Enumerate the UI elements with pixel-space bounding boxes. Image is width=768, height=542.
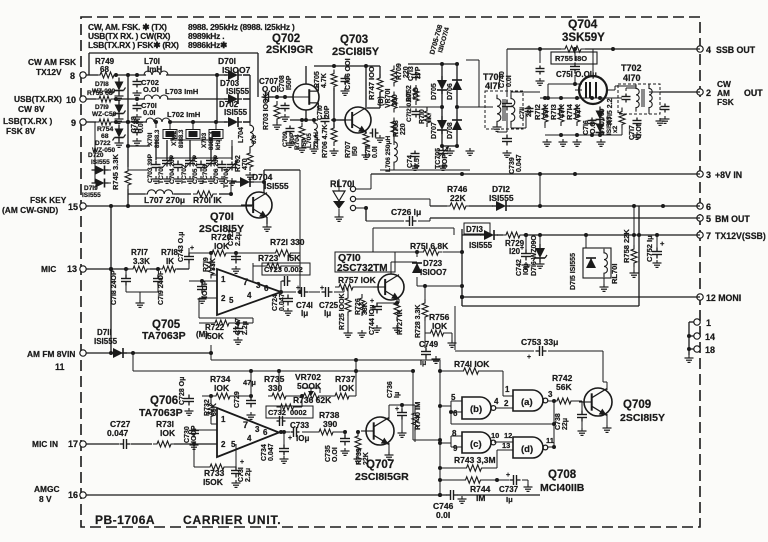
svg-text:+: + bbox=[370, 298, 374, 305]
svg-text:SSB OUT: SSB OUT bbox=[716, 45, 756, 55]
capacitor C718 240P bbox=[111, 269, 131, 305]
svg-text:TC70I: TC70I bbox=[158, 166, 165, 184]
box Q710 label bbox=[335, 252, 395, 272]
svg-text:4I7I: 4I7I bbox=[485, 81, 500, 91]
trimmer TC702 bbox=[181, 156, 196, 184]
svg-text:5: 5 bbox=[706, 214, 711, 224]
svg-text:R7I7: R7I7 bbox=[131, 248, 148, 257]
svg-text:3: 3 bbox=[256, 281, 261, 290]
resistor R717 3.3K bbox=[129, 248, 151, 272]
svg-text:5OOK: 5OOK bbox=[297, 381, 322, 391]
pin 4 SSB OUT bbox=[697, 45, 756, 55]
svg-text:6: 6 bbox=[453, 409, 458, 418]
svg-text:OUT: OUT bbox=[744, 88, 763, 98]
resistor R701 1K bbox=[193, 191, 223, 205]
svg-text:I50P: I50P bbox=[286, 75, 293, 90]
capacitor C706 20P bbox=[213, 154, 227, 184]
capacitor C712 0.001 bbox=[406, 92, 421, 122]
capacitor C702 0.01 bbox=[133, 78, 159, 97]
label D705-708 1S1007x4 bbox=[429, 24, 451, 56]
resistor R728 3.3K bbox=[415, 286, 428, 345]
svg-text:Q703: Q703 bbox=[340, 34, 368, 46]
svg-text:ISI555: ISI555 bbox=[224, 108, 248, 117]
resistor R721 330 bbox=[236, 237, 305, 266]
capacitor C750 1000P bbox=[536, 49, 545, 85]
label Q708 MC14011B bbox=[540, 469, 585, 494]
svg-text:2SCI8I5GR: 2SCI8I5GR bbox=[355, 471, 409, 483]
svg-text:+: + bbox=[240, 459, 244, 466]
svg-text:D705: D705 bbox=[431, 83, 438, 100]
svg-text:LSB(TX.RX ): LSB(TX.RX ) bbox=[3, 116, 53, 126]
svg-text:R726: R726 bbox=[355, 298, 362, 315]
svg-text:C722: C722 bbox=[228, 229, 235, 246]
svg-text:ISI555: ISI555 bbox=[91, 159, 110, 166]
capacitor C749 1u bbox=[419, 340, 441, 367]
svg-text:1: 1 bbox=[221, 415, 226, 424]
svg-text:C7I8 24OP: C7I8 24OP bbox=[111, 270, 118, 305]
capacitor C705 27P bbox=[192, 154, 206, 184]
svg-text:I20: I20 bbox=[509, 247, 521, 256]
svg-text:Iμ: Iμ bbox=[394, 392, 401, 398]
wire Q709 collector to C753 bbox=[603, 382, 607, 390]
capacitor C716 0.01 bbox=[583, 118, 597, 136]
svg-text:Q709: Q709 bbox=[623, 399, 651, 411]
svg-text:6: 6 bbox=[706, 202, 711, 212]
svg-text:C743 O.μ: C743 O.μ bbox=[178, 232, 185, 262]
capacitor C732 0.002 box bbox=[266, 406, 313, 426]
svg-text:R705: R705 bbox=[314, 71, 321, 88]
wire T702 out to pin2 bbox=[649, 92, 700, 125]
svg-text:22μ: 22μ bbox=[562, 418, 569, 430]
wire SSB feedback bbox=[497, 49, 512, 132]
resistor R712 39K bbox=[533, 104, 550, 126]
resistor R718 1K bbox=[159, 248, 180, 272]
capacitor C719 240P bbox=[126, 270, 165, 307]
svg-text:C738: C738 bbox=[555, 413, 562, 430]
svg-text:Iμ: Iμ bbox=[506, 495, 513, 504]
svg-text:2: 2 bbox=[221, 294, 226, 303]
pin 11 AM FM 8V IN bbox=[27, 349, 89, 372]
resistor R705 4.7K bbox=[314, 70, 337, 91]
capacitor C735 0.01 bbox=[325, 430, 350, 462]
resistor R736 62K bbox=[277, 394, 333, 414]
inductor L707 270u bbox=[143, 190, 185, 205]
svg-text:Iμ: Iμ bbox=[420, 360, 426, 367]
pin 14 bbox=[694, 332, 715, 342]
svg-text:C75I O.OIμ: C75I O.OIμ bbox=[556, 70, 597, 79]
svg-text:2SCI8I5Y: 2SCI8I5Y bbox=[620, 412, 665, 424]
resistor R727 1K bbox=[393, 299, 405, 335]
capacitor C739 0.047 bbox=[502, 135, 523, 175]
svg-text:Iμ: Iμ bbox=[301, 309, 308, 318]
zener D722 WZ-050 bbox=[92, 125, 126, 155]
wire Q706 rail bbox=[251, 369, 413, 373]
svg-text:1: 1 bbox=[221, 275, 226, 284]
wire filter mid rail bbox=[128, 158, 232, 170]
capacitor C734 0.047 bbox=[261, 430, 289, 463]
svg-text:R702: R702 bbox=[235, 155, 242, 172]
svg-text:L707 270μ: L707 270μ bbox=[144, 195, 185, 205]
svg-text:8988.3: 8988.3 bbox=[155, 129, 161, 148]
svg-text:BM OUT: BM OUT bbox=[715, 214, 750, 224]
capacitor C736 1u bbox=[387, 381, 407, 437]
svg-text:R722: R722 bbox=[205, 323, 225, 332]
svg-text:4I70: 4I70 bbox=[623, 73, 641, 83]
diode D721 1S1555 bbox=[82, 170, 111, 199]
svg-text:RL70I: RL70I bbox=[610, 264, 619, 284]
pin 8 CW AM FSK TX12V bbox=[28, 57, 89, 81]
svg-text:8: 8 bbox=[452, 429, 457, 438]
pin 18 bbox=[694, 345, 715, 355]
svg-text:x2: x2 bbox=[612, 125, 619, 133]
wire T701 input bbox=[466, 60, 540, 131]
svg-text:6: 6 bbox=[263, 428, 268, 437]
svg-text:68: 68 bbox=[101, 133, 109, 140]
svg-text:C742: C742 bbox=[516, 259, 523, 276]
dual-gate FET Q704 3SK59Y bbox=[548, 17, 607, 104]
svg-text:C726 Iμ: C726 Iμ bbox=[391, 207, 421, 217]
svg-text:+8V IN: +8V IN bbox=[715, 170, 742, 180]
svg-text:ISIOO7: ISIOO7 bbox=[222, 65, 251, 75]
svg-text:17: 17 bbox=[68, 439, 78, 449]
svg-text:Q708: Q708 bbox=[548, 469, 577, 481]
svg-text:IOK: IOK bbox=[160, 428, 176, 438]
svg-text:7: 7 bbox=[706, 231, 711, 241]
nand gate (b) bbox=[438, 393, 513, 419]
svg-text:R728 3.3K: R728 3.3K bbox=[415, 305, 422, 338]
svg-text:(d): (d) bbox=[521, 444, 533, 455]
wire pin6 row bbox=[430, 204, 700, 208]
resistor R734 10K bbox=[202, 371, 251, 399]
svg-text:LSB(TX.RX ) FSK✱ (RX): LSB(TX.RX ) FSK✱ (RX) bbox=[88, 40, 179, 50]
svg-text:330: 330 bbox=[268, 383, 282, 393]
wire Q710 collector diode D723 bbox=[391, 250, 464, 288]
wire Q705 feedback bbox=[253, 266, 302, 294]
svg-text:USB(TX.RX): USB(TX.RX) bbox=[14, 94, 62, 104]
svg-text:Q.OI: Q.OI bbox=[262, 85, 279, 94]
diode D711 1S1555 bbox=[94, 328, 127, 358]
nand gate (a) bbox=[503, 371, 557, 411]
svg-text:C724: C724 bbox=[272, 294, 279, 311]
svg-text:D7I3: D7I3 bbox=[466, 225, 483, 234]
svg-text:R743 3,3M: R743 3,3M bbox=[454, 455, 496, 465]
wire Q706 inputs bbox=[194, 424, 217, 444]
wire Q706 output node bbox=[279, 430, 290, 434]
svg-text:TX12V(SSB): TX12V(SSB) bbox=[715, 231, 766, 241]
svg-text:47μ: 47μ bbox=[243, 378, 256, 387]
resistor R749 68 bbox=[95, 57, 118, 78]
svg-text:5: 5 bbox=[231, 440, 236, 449]
svg-text:C739: C739 bbox=[509, 157, 516, 174]
svg-text:33K: 33K bbox=[362, 302, 369, 315]
diode D707 bbox=[431, 116, 447, 139]
svg-text:L702 ImH: L702 ImH bbox=[167, 110, 200, 119]
svg-text:CW AM FSK: CW AM FSK bbox=[28, 57, 76, 67]
pin 10 USB(TX,RX) CW 8V bbox=[14, 94, 89, 114]
svg-text:C740: C740 bbox=[499, 71, 506, 88]
svg-text:D7II: D7II bbox=[97, 328, 112, 337]
svg-text:R7I5 2.2: R7I5 2.2 bbox=[607, 98, 614, 125]
capacitor C730 100P bbox=[184, 425, 199, 449]
board outline PB-1706A (dashed) bbox=[81, 17, 700, 527]
svg-text:I5OK: I5OK bbox=[205, 332, 224, 341]
pin 6 bbox=[697, 202, 711, 212]
svg-text:D707: D707 bbox=[431, 122, 438, 139]
potentiometer VR702 500K bbox=[295, 372, 323, 399]
wire crystal filter bus bbox=[126, 75, 232, 206]
wire MONI row bbox=[460, 295, 700, 299]
capacitor C703 39P bbox=[147, 153, 161, 183]
resistor R732 39K bbox=[204, 394, 218, 424]
svg-text:9: 9 bbox=[453, 444, 458, 453]
svg-text:ISI555: ISI555 bbox=[82, 192, 101, 199]
wire Q705 out bottom bbox=[199, 318, 253, 323]
svg-text:L706 250μH: L706 250μH bbox=[385, 136, 392, 172]
wire MIC row bbox=[89, 267, 189, 271]
capacitor C738 22u bbox=[555, 401, 587, 435]
svg-text:C734: C734 bbox=[261, 444, 268, 461]
transistor Q709 2SC1815Y bbox=[579, 388, 665, 424]
svg-text:13: 13 bbox=[502, 441, 510, 450]
pin 7 TX12V(SSB) bbox=[697, 231, 766, 241]
resistor R702 470 bbox=[235, 149, 255, 179]
board name PB-1706A CARRIER UNIT bbox=[95, 513, 281, 527]
svg-text:2: 2 bbox=[221, 440, 226, 449]
resistor R703 100K bbox=[263, 93, 282, 130]
svg-text:13: 13 bbox=[67, 264, 77, 274]
svg-text:(c): (c) bbox=[470, 439, 482, 450]
resistor R714 62K bbox=[565, 103, 582, 126]
svg-text:2SC732TM: 2SC732TM bbox=[337, 263, 388, 274]
wire row 8V CW rail (pin8) bbox=[89, 73, 250, 77]
svg-text:C748: C748 bbox=[131, 116, 138, 133]
wire FSK vertical bbox=[109, 206, 113, 353]
wire AM FM row bbox=[89, 351, 213, 355]
svg-text:Iμ: Iμ bbox=[324, 309, 331, 318]
svg-text:AM FM 8VIN: AM FM 8VIN bbox=[27, 349, 75, 359]
svg-text:X702: X702 bbox=[171, 130, 178, 146]
svg-text:C723 0.002: C723 0.002 bbox=[264, 265, 303, 274]
wire Q705 inputs bbox=[189, 275, 217, 318]
svg-text:R723: R723 bbox=[258, 253, 279, 263]
svg-text:12: 12 bbox=[504, 431, 512, 440]
resistor R738 390 bbox=[302, 410, 345, 435]
svg-text:16: 16 bbox=[68, 490, 78, 500]
wire ssb out row bbox=[507, 47, 700, 51]
resistor R726 33K bbox=[355, 294, 369, 337]
svg-text:4: 4 bbox=[247, 434, 252, 443]
diode D708 bbox=[447, 120, 462, 139]
capacitor C721 100P bbox=[197, 280, 209, 303]
svg-text:0.0I: 0.0I bbox=[138, 121, 145, 133]
op-amp Q705 TA7063P bbox=[142, 269, 281, 342]
capacitor C704 20P bbox=[169, 154, 183, 184]
wire diode ring bbox=[399, 62, 493, 155]
svg-text:6: 6 bbox=[264, 284, 269, 293]
diodes D710 1S555 x2 bbox=[596, 107, 620, 137]
capacitor C751 0.01u bbox=[556, 49, 597, 84]
diode D723 1S1007 bbox=[412, 259, 447, 277]
resistor R753 68 bbox=[87, 90, 115, 102]
capacitor C710 20P bbox=[317, 105, 331, 124]
svg-text:D723: D723 bbox=[423, 259, 443, 268]
svg-text:IOK: IOK bbox=[339, 383, 355, 393]
wire AMGC row bbox=[89, 493, 540, 497]
svg-text:ISI555: ISI555 bbox=[489, 193, 514, 203]
resistor R735 330 bbox=[264, 371, 302, 399]
relay RL701 coil with D715 bbox=[570, 235, 619, 291]
svg-text:0.047: 0.047 bbox=[107, 428, 129, 438]
inductor L706 250uH bbox=[385, 136, 397, 172]
resistor R708 220 bbox=[391, 118, 407, 139]
wire Q704 bias rail bbox=[540, 84, 622, 146]
svg-text:R7I9: R7I9 bbox=[203, 257, 210, 272]
svg-text:4: 4 bbox=[494, 397, 499, 406]
crystal X701 8988.3 bbox=[147, 129, 177, 148]
capacitor C742 10u bbox=[516, 233, 531, 276]
svg-text:MIC IN: MIC IN bbox=[32, 439, 58, 449]
transistor Q702 2SK19GR bbox=[266, 33, 319, 110]
capacitor C726 1u bbox=[366, 207, 430, 226]
wire +8V row pin3 bbox=[371, 172, 700, 206]
svg-text:10: 10 bbox=[66, 95, 76, 105]
svg-text:C735: C735 bbox=[325, 445, 332, 462]
svg-text:R747 IOO: R747 IOO bbox=[367, 66, 376, 100]
svg-text:7: 7 bbox=[243, 420, 248, 430]
svg-text:Q707: Q707 bbox=[366, 459, 394, 471]
label Q710 2SC732TM bbox=[337, 252, 388, 274]
resistor R742 56K bbox=[552, 373, 582, 404]
capacitor C733 10u bbox=[288, 421, 310, 443]
svg-text:FSK KEY: FSK KEY bbox=[30, 195, 67, 205]
pin 12 MONI bbox=[697, 293, 741, 303]
capacitor C723 0.002 box bbox=[262, 263, 310, 286]
crystal X702 bbox=[171, 129, 200, 148]
svg-text:R754: R754 bbox=[97, 126, 113, 133]
svg-text:O.OI: O.OI bbox=[143, 85, 159, 94]
diode D701 1S1007 bbox=[218, 56, 251, 80]
svg-text:R755 I8O: R755 I8O bbox=[555, 54, 587, 63]
capacitor C740 0.01 bbox=[499, 71, 513, 88]
wire C707 to Q702 gate bbox=[272, 95, 293, 99]
resistor R725 100K bbox=[339, 288, 353, 337]
capacitor C707 0.01 bbox=[259, 77, 279, 102]
svg-text:D722: D722 bbox=[95, 140, 111, 147]
resistor R754 68 bbox=[95, 119, 115, 140]
capacitor C711 0.01 bbox=[365, 129, 385, 159]
svg-text:2: 2 bbox=[706, 88, 711, 98]
crystal X703 8988.3kHz bbox=[201, 130, 223, 151]
resistor R745 3.3K bbox=[111, 154, 131, 190]
resistor R720 10K bbox=[189, 232, 236, 256]
svg-text:8: 8 bbox=[70, 71, 75, 81]
svg-text:IOμ: IOμ bbox=[296, 434, 309, 443]
svg-text:+: + bbox=[288, 435, 292, 442]
capacitor C701 0.01 bbox=[133, 101, 157, 121]
svg-text:R707: R707 bbox=[345, 141, 352, 158]
capacitor C717 0.01 bbox=[629, 118, 643, 141]
svg-text:C730: C730 bbox=[184, 426, 191, 443]
relay contacts bbox=[350, 174, 430, 211]
svg-text:(AM CW-GND): (AM CW-GND) bbox=[2, 205, 58, 215]
resistor R744 1M bbox=[440, 477, 509, 503]
svg-text:3: 3 bbox=[706, 170, 711, 180]
pin 3 +8V IN bbox=[697, 170, 742, 180]
svg-text:IOK: IOK bbox=[214, 383, 230, 393]
wire ring bottom bbox=[380, 142, 475, 170]
resistor R731 10K bbox=[153, 419, 176, 447]
resistor R715 2.2 bbox=[607, 98, 625, 128]
resistor R709 220 bbox=[391, 63, 410, 86]
svg-text:Q70I: Q70I bbox=[210, 211, 234, 223]
wire Q702 source node bbox=[290, 110, 318, 122]
capacitor C725 1u bbox=[309, 285, 344, 318]
svg-text:220: 220 bbox=[400, 123, 407, 135]
svg-text:TA7063P: TA7063P bbox=[142, 330, 186, 342]
transistor Q703 2SC1815Y bbox=[332, 34, 380, 133]
svg-text:(B): (B) bbox=[378, 96, 385, 106]
resistor R707 150 bbox=[345, 130, 371, 160]
svg-text:2SKI9GR: 2SKI9GR bbox=[266, 44, 313, 56]
svg-text:CARRIER UNIT.: CARRIER UNIT. bbox=[183, 513, 281, 527]
trimmer TC704 bbox=[223, 160, 238, 188]
resistor R758 22K bbox=[622, 206, 639, 277]
pin 15 FSK KEY (AM CW-GND) bbox=[2, 195, 89, 215]
svg-text:I5OK: I5OK bbox=[203, 477, 224, 487]
svg-text:3SK59Y: 3SK59Y bbox=[562, 32, 605, 44]
svg-text:C7I3: C7I3 bbox=[408, 66, 415, 81]
svg-text:L705: L705 bbox=[306, 133, 313, 148]
svg-text:PB-1706A: PB-1706A bbox=[95, 513, 155, 527]
svg-text:L704: L704 bbox=[238, 127, 245, 143]
svg-text:3.3K: 3.3K bbox=[133, 257, 150, 266]
header frequency table bbox=[88, 22, 295, 50]
svg-text:8988.3: 8988.3 bbox=[179, 129, 185, 148]
svg-text:C7II: C7II bbox=[365, 145, 372, 158]
svg-text:I50: I50 bbox=[352, 146, 359, 156]
capacitor C729 47u bbox=[234, 378, 256, 419]
capacitor C743 0.1u bbox=[178, 232, 194, 269]
svg-text:X703: X703 bbox=[201, 132, 208, 148]
svg-text:D7I8: D7I8 bbox=[95, 81, 109, 88]
svg-text:ImH: ImH bbox=[147, 65, 162, 74]
resistor R740 1M bbox=[412, 402, 422, 442]
resistor R710 1K bbox=[419, 107, 433, 127]
svg-text:0.0I: 0.0I bbox=[436, 510, 450, 520]
svg-text:ISI555: ISI555 bbox=[264, 181, 289, 191]
resistor R739 22K bbox=[354, 430, 371, 465]
transistor Q707 2SC1815GR bbox=[355, 417, 409, 483]
svg-text:3: 3 bbox=[548, 390, 553, 399]
potentiometer VR701 200(B) bbox=[378, 88, 399, 112]
svg-text:C752 Iμ: C752 Iμ bbox=[645, 235, 654, 262]
capacitor C727 0.047 bbox=[107, 419, 131, 449]
resistor R741 10K bbox=[454, 359, 490, 374]
svg-text:C729: C729 bbox=[234, 391, 241, 408]
op-amp Q706 TA7063P bbox=[139, 395, 279, 457]
resistor R729 120 bbox=[502, 232, 525, 256]
svg-text:C708: C708 bbox=[279, 75, 286, 92]
svg-text:D708: D708 bbox=[447, 122, 454, 139]
svg-text:AMGC: AMGC bbox=[34, 484, 60, 494]
svg-text:C7I9 24OF: C7I9 24OF bbox=[158, 270, 165, 305]
svg-text:0.0: 0.0 bbox=[251, 135, 258, 144]
svg-text:+: + bbox=[190, 245, 194, 252]
svg-text:X70I: X70I bbox=[147, 132, 154, 146]
wire Q707 collector bbox=[389, 369, 415, 432]
wire row pin10 bbox=[89, 97, 250, 101]
resistor R743 3.3M bbox=[438, 450, 497, 471]
